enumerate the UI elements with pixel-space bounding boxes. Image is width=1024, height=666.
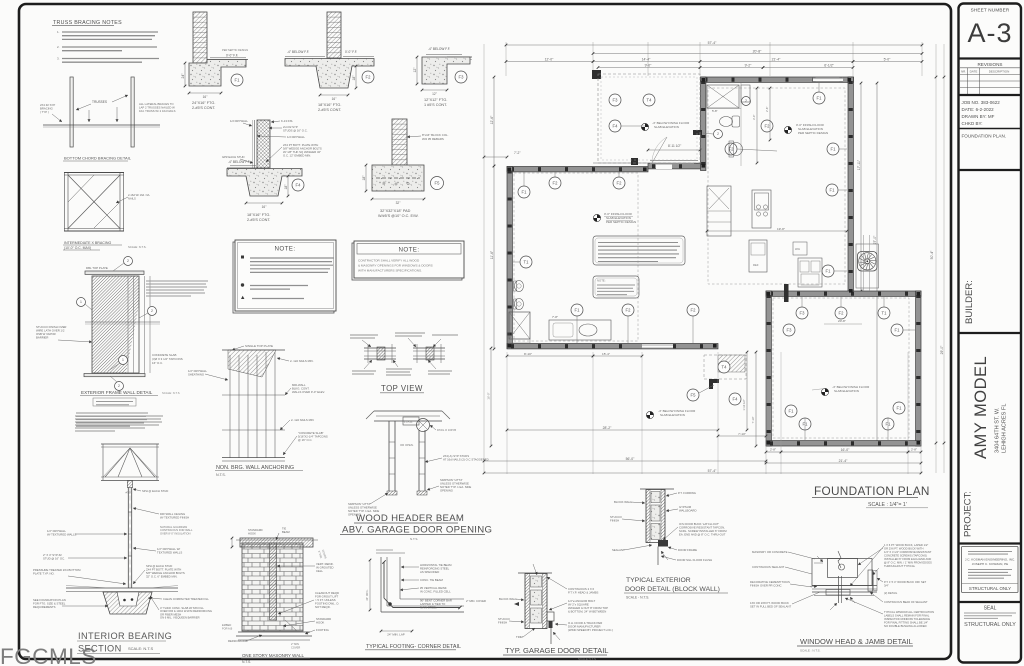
svg-text:20'-8": 20'-8"	[753, 49, 762, 53]
svg-text:SCALE: N.T.S.: SCALE: N.T.S.	[128, 245, 147, 249]
svg-text:1/2 DRYWALL: 1/2 DRYWALL	[287, 135, 305, 139]
svg-text:F1: F1	[522, 190, 528, 195]
svg-text:19'-8": 19'-8"	[777, 227, 785, 231]
svg-text:HOOK: HOOK	[316, 621, 324, 625]
svg-text:5'-8": 5'-8"	[712, 109, 718, 113]
svg-text:DATE: DATE	[970, 70, 978, 74]
svg-text:2" MIN. COVER: 2" MIN. COVER	[466, 599, 486, 603]
svg-text:ON 6 MIL. VISQUEEN BARRIER: ON 6 MIL. VISQUEEN BARRIER	[160, 616, 200, 620]
svg-text:@ 16" O.C.: @ 16" O.C.	[298, 438, 312, 442]
svg-text:FOUNDATION PLAN.: FOUNDATION PLAN.	[962, 134, 1007, 139]
svg-text:F1: F1	[803, 422, 809, 427]
header beam posts	[388, 421, 390, 491]
svg-text:DRAWN BY: MF: DRAWN BY: MF	[962, 114, 995, 119]
svg-text:16": 16"	[203, 95, 208, 99]
svg-text:FINISH: FINISH	[498, 621, 507, 625]
svg-text:20'-8": 20'-8"	[838, 319, 846, 323]
svg-text:TEXTURED WALLS: TEXTURED WALLS	[157, 551, 182, 555]
svg-text:TRIM: TRIM	[516, 635, 524, 639]
svg-text:DTAIL O 16P.05: DTAIL O 16P.05	[437, 428, 457, 432]
svg-text:12'-6": 12'-6"	[490, 115, 494, 124]
svg-text:57'-4": 57'-4"	[708, 469, 717, 473]
svg-text:& MASONRY OPENINGS FOR WINDOWS: & MASONRY OPENINGS FOR WINDOWS & DOORS	[358, 264, 433, 268]
great room walls	[701, 77, 854, 82]
svg-text:32"X32"X18" PAD: 32"X32"X18" PAD	[380, 209, 411, 213]
svg-text:2: 2	[127, 259, 129, 263]
svg-text:2.: 2.	[57, 45, 60, 49]
svg-text:W/ TEXTURED FINISH: W/ TEXTURED FINISH	[160, 516, 189, 520]
kitchen fixtures	[707, 186, 731, 236]
svg-text:NO DOUBLE BUSHING ALLOWED: NO DOUBLE BUSHING ALLOWED	[884, 624, 927, 628]
svg-text:HOOK: HOOK	[248, 531, 256, 535]
footing detail F2	[327, 12, 341, 58]
svg-text:9'-0": 9'-0"	[645, 63, 653, 67]
garage walls	[766, 291, 921, 296]
svg-text:32": 32"	[396, 201, 401, 205]
F5 marker circle	[431, 177, 444, 190]
foundation plan: top dimension rows	[506, 44, 922, 46]
rounded note box in plan 1	[593, 236, 685, 265]
interior bearing section: post	[127, 481, 132, 488]
svg-text:16": 16"	[332, 97, 337, 101]
svg-text:2 2X12: 2 2X12	[404, 420, 413, 424]
svg-text:BARRIER: BARRIER	[36, 336, 48, 340]
svg-text:JOSEPH C. KOSMAN, PE: JOSEPH C. KOSMAN, PE	[972, 562, 1008, 566]
svg-text:7'-2": 7'-2"	[514, 151, 521, 155]
svg-text:16": 16"	[262, 205, 267, 209]
interior wall w/ door gap	[648, 164, 701, 169]
bathtub	[549, 320, 611, 340]
svg-text:FGCMLS: FGCMLS	[0, 644, 97, 666]
svg-text:SHEET NUMBER: SHEET NUMBER	[971, 8, 1010, 13]
svg-text:ONE STORY MASONRY WALL: ONE STORY MASONRY WALL	[242, 653, 304, 658]
svg-text:P.T. FURRING: P.T. FURRING	[678, 491, 696, 495]
marker circles TL room	[518, 186, 530, 198]
svg-text:DESCRIPTION: DESCRIPTION	[989, 70, 1010, 74]
vertical dim left of plan lower	[490, 348, 492, 446]
svg-text:SPH @ EACH STUD: SPH @ EACH STUD	[142, 489, 168, 493]
top view detail	[364, 347, 396, 349]
svg-text:FINISH: FINISH	[610, 519, 619, 523]
svg-text:(10'-0" O.C. MAX): (10'-0" O.C. MAX)	[64, 246, 91, 250]
plumbing fixtures left wall	[515, 281, 524, 292]
svg-text:PLATE T.YP. NO.: PLATE T.YP. NO.	[33, 572, 55, 576]
svg-text:SCALE N.T.S: SCALE N.T.S	[578, 657, 596, 661]
svg-text:CONTINUOUS BEAD OF SEALANT: CONTINUOUS BEAD OF SEALANT	[884, 600, 928, 604]
svg-text:SCALE: N.T.S: SCALE: N.T.S	[128, 646, 153, 651]
svg-text:0'-0" F.F.: 0'-0" F.F.	[345, 50, 357, 54]
svg-text:3/4": 3/4"	[884, 584, 889, 588]
svg-text:W/H: W/H	[795, 247, 800, 251]
svg-text:1/2 DRYWALL: 1/2 DRYWALL	[230, 119, 248, 123]
svg-text:JOB NO. 383-0622: JOB NO. 383-0622	[962, 100, 1001, 105]
svg-text:12'-0": 12'-0"	[545, 57, 554, 61]
svg-text:1: 1	[122, 358, 124, 362]
svg-text:AMY MODEL: AMY MODEL	[972, 356, 990, 459]
svg-text:REINFORCING: REINFORCING	[228, 639, 248, 643]
svg-text:9'-2": 9'-2"	[745, 63, 753, 67]
svg-text:LEHIGH ACRES FL: LEHIGH ACRES FL	[1002, 404, 1008, 453]
svg-text:2'-8": 2'-8"	[770, 448, 776, 452]
wall corner ticks	[702, 78, 706, 82]
svg-text:15'-4": 15'-4"	[602, 352, 610, 356]
note box 1	[233, 242, 334, 313]
footing detail F5	[392, 119, 407, 165]
title block frame	[959, 4, 1022, 663]
bottom chord bracing detail	[70, 77, 73, 147]
svg-text:(2) DETAIL: (2) DETAIL	[884, 591, 898, 595]
svg-text:INTERIOR BEARING: INTERIOR BEARING	[78, 631, 172, 641]
svg-text:SEALANT: SEALANT	[612, 548, 625, 552]
svg-text:CONTRACTOR SHALL VERIFY ALL WO: CONTRACTOR SHALL VERIFY ALL WOOD	[358, 259, 420, 263]
svg-text:P.T. 1"X 4" WOOD BUCK OFF SET: P.T. 1"X 4" WOOD BUCK OFF SET	[884, 580, 927, 584]
A/C unit with fan	[856, 244, 879, 288]
svg-text:27'-0": 27'-0"	[873, 235, 877, 244]
svg-text:SLAB ELEVATION: SLAB ELEVATION	[660, 413, 685, 417]
svg-text:2-#5'S CONT.: 2-#5'S CONT.	[318, 108, 341, 112]
svg-text:F3: F3	[459, 75, 465, 80]
svg-text:K-13 INS.: K-13 INS.	[281, 119, 293, 123]
svg-text:2: 2	[717, 132, 719, 136]
svg-text:WALLBOARD: WALLBOARD	[679, 509, 696, 513]
svg-text:THROUGHOUT TYPICAL: THROUGHOUT TYPICAL	[884, 564, 916, 568]
svg-text:29'-0": 29'-0"	[940, 345, 944, 354]
svg-text:NOTE:: NOTE:	[399, 247, 420, 254]
svg-text:DATE: 6-2-2022: DATE: 6-2-2022	[962, 107, 995, 112]
svg-text:18"X16" FTG.: 18"X16" FTG.	[318, 103, 341, 107]
svg-text:CONC. TIE BEAM: CONC. TIE BEAM	[420, 578, 443, 582]
svg-text:F2: F2	[839, 311, 845, 316]
svg-text:#TSG: #TSG	[126, 491, 133, 495]
svg-text:2: 2	[118, 384, 120, 388]
svg-text:SCALE: N.T.S: SCALE: N.T.S	[162, 391, 180, 395]
svg-text:STRUCTURAL ONLY: STRUCTURAL ONLY	[969, 586, 1011, 591]
window opening in top wall	[813, 78, 843, 82]
svg-text:28'-2": 28'-2"	[603, 426, 612, 430]
footing detail F3	[447, 56, 472, 58]
4-quadrant elevation symbols	[593, 214, 600, 221]
svg-text:16" O.C.: 16" O.C.	[152, 361, 163, 365]
foundation plan: right dimension lines	[935, 44, 937, 473]
exterior frame wall detail	[85, 271, 144, 274]
svg-text:T1: T1	[882, 311, 888, 316]
svg-text:7'-10": 7'-10"	[751, 417, 755, 424]
svg-text:STUD @ 16" OC.: STUD @ 16" OC.	[43, 557, 65, 561]
svg-text:16'-0": 16'-0"	[487, 392, 491, 399]
svg-text:14'-4": 14'-4"	[642, 57, 651, 61]
svg-text:STRUCTURAL ONLY: STRUCTURAL ONLY	[964, 622, 1016, 628]
svg-text:AT 16d NAILS (2) O.C STAGGERED: AT 16d NAILS (2) O.C STAGGERED	[443, 458, 489, 462]
intermediate X bracing detail	[64, 172, 124, 174]
svg-text:56'-0": 56'-0"	[626, 457, 635, 461]
svg-text:DOOR SILL FLOOR FLUSH: DOOR SILL FLOOR FLUSH	[677, 558, 712, 562]
svg-text:F2: F2	[626, 308, 632, 313]
svg-text:FOR A.B: FOR A.B	[222, 626, 233, 630]
svg-text:11'-6": 11'-6"	[490, 250, 494, 259]
svg-text:WALLS OVER 9'-0" ELEV.: WALLS OVER 9'-0" ELEV.	[292, 390, 325, 394]
svg-text:50'-4": 50'-4"	[930, 250, 934, 259]
svg-text:BUILDER:: BUILDER:	[964, 280, 975, 324]
bath fixtures great room	[707, 85, 739, 108]
porch circles	[687, 389, 699, 401]
svg-text:SCALE : 1/4"= 1': SCALE : 1/4"= 1'	[868, 502, 907, 508]
svg-text:7'-8": 7'-8"	[552, 315, 558, 319]
svg-text:N.T.S.: N.T.S.	[242, 660, 251, 664]
typ. garage door detail	[518, 572, 552, 574]
svg-text:TYPICAL WINDOW ALL CERTIFICATI: TYPICAL WINDOW ALL CERTIFICATION	[884, 610, 934, 614]
svg-text:WITH MANUFACTURERS SPECIFICATI: WITH MANUFACTURERS SPECIFICATIONS.	[358, 269, 422, 273]
svg-text:NOTE:: NOTE:	[597, 279, 606, 283]
svg-text:TRUSS BRACING NOTES: TRUSS BRACING NOTES	[53, 20, 122, 26]
svg-text:T1: T1	[524, 260, 530, 265]
svg-text:3404 64TH ST. W.: 3404 64TH ST. W.	[995, 407, 1001, 453]
dashed slab inset great room	[708, 88, 845, 284]
svg-text:PER SEPTIC DESIGN: PER SEPTIC DESIGN	[798, 131, 828, 135]
patio circles	[609, 94, 621, 106]
svg-text:P.T.Y.P. HEAD & JAMBS: P.T.Y.P. HEAD & JAMBS	[568, 591, 598, 595]
great room circles	[813, 92, 825, 104]
svg-text:NOTE:: NOTE:	[275, 246, 296, 253]
typical exterior door detail (block wall)	[640, 488, 674, 490]
svg-text:-4" BELOW F.F.: -4" BELOW F.F.	[228, 160, 250, 164]
dims between house and garage	[746, 352, 748, 430]
dashed slab inset TL room	[514, 173, 638, 341]
svg-text:FOOTING: FOOTING	[316, 628, 329, 632]
svg-text:18"X16" FTG.: 18"X16" FTG.	[247, 213, 270, 217]
entry door swing	[652, 137, 667, 163]
svg-text:F1: F1	[235, 78, 241, 83]
svg-text:REF: REF	[753, 263, 759, 267]
svg-text:21'-4": 21'-4"	[839, 459, 848, 463]
svg-text:& BOTTOM, 24" W BETWEEN: & BOTTOM, 24" W BETWEEN	[568, 610, 606, 614]
svg-text:1: 1	[80, 300, 82, 304]
svg-text:FINISH OVER PR CONC: FINISH OVER PR CONC	[750, 584, 782, 588]
svg-text:MAIN STEEL: MAIN STEEL	[420, 606, 437, 610]
svg-text:8'-11 1/2": 8'-11 1/2"	[668, 144, 681, 148]
F2 marker circle	[362, 71, 374, 83]
svg-text:2'-8": 2'-8"	[765, 107, 769, 112]
svg-text:CHKD BY:: CHKD BY:	[962, 121, 983, 126]
svg-text:WOOD HEADER BEAM: WOOD HEADER BEAM	[356, 513, 464, 524]
svg-text:( TYP ): ( TYP )	[40, 110, 49, 114]
footing detail F4	[257, 120, 270, 168]
svg-text:LABELS SHALL REMAIN FOR FINAL: LABELS SHALL REMAIN FOR FINAL	[884, 614, 930, 618]
svg-text:SINGLE TOP PLATE: SINGLE TOP PLATE	[245, 344, 273, 348]
foundation plan: extension lines top	[505, 42, 507, 76]
dashed patio outline top-left	[598, 74, 700, 163]
svg-text:2-16d W/ 16d. NA.: 2-16d W/ 16d. NA.	[128, 193, 150, 197]
svg-text:21'-4": 21'-4"	[772, 57, 781, 61]
svg-text:3'-0": 3'-0"	[752, 115, 756, 120]
svg-text:EA. END AND @ 8" O.C. THRU-OUT: EA. END AND @ 8" O.C. THRU-OUT	[679, 533, 726, 537]
svg-text:BLOCK WALL: BLOCK WALL	[614, 500, 632, 504]
F4 marker circle	[292, 179, 304, 191]
svg-text:F1: F1	[897, 406, 903, 411]
svg-text:INSPECTION WINDOW TOLERANCE: INSPECTION WINDOW TOLERANCE	[884, 617, 930, 621]
svg-text:SLAB ELEVATION: SLAB ELEVATION	[834, 389, 859, 393]
svg-text:F4: F4	[613, 124, 619, 129]
svg-text:NR.: NR.	[961, 70, 966, 74]
shower x-box	[509, 312, 530, 339]
svg-text:-4" BELOW F.F.: -4" BELOW F.F.	[287, 50, 309, 54]
svg-text:BEAM: BEAM	[282, 530, 290, 534]
svg-text:1 X 6 PT. WOOD BUCK, LAPED 1/2: 1 X 6 PT. WOOD BUCK, LAPED 1/2"	[884, 543, 928, 547]
svg-text:STUDS @ 16" O.C.: STUDS @ 16" O.C.	[283, 129, 308, 133]
svg-text:F2: F2	[553, 181, 559, 186]
svg-text:TYPICAL FOOTING- CORNER DETAIL: TYPICAL FOOTING- CORNER DETAIL	[366, 644, 461, 650]
svg-text:DOOR DETAIL (BLOCK WALL): DOOR DETAIL (BLOCK WALL)	[625, 586, 720, 593]
svg-text:IN CONC. FILLED CELL: IN CONC. FILLED CELL	[420, 590, 451, 594]
svg-text:FOR FINAL FITTING SHALL BE 1/: FOR FINAL FITTING SHALL BE 1/4"	[884, 621, 928, 625]
svg-text:GP# EACH STUD: GP# EACH STUD	[222, 155, 245, 159]
svg-text:DOOR FRAME: DOOR FRAME	[678, 548, 697, 552]
exterior frame wall labels	[146, 280, 208, 282]
svg-text:OR 2X6 PT. WOOD BUCK WITH: OR 2X6 PT. WOOD BUCK WITH	[884, 547, 923, 551]
interior vertical dim strings	[756, 88, 758, 163]
svg-text:F3: F3	[613, 98, 619, 103]
svg-text:BLOCK WALL: BLOCK WALL	[499, 597, 517, 601]
svg-text:FOUNDATION PLAN: FOUNDATION PLAN	[814, 484, 930, 498]
svg-text:T4: T4	[647, 98, 653, 103]
svg-text:TRUSSES: TRUSSES	[92, 100, 107, 104]
svg-text:N.T.S.: N.T.S.	[410, 537, 418, 541]
svg-text:F1: F1	[830, 188, 836, 193]
svg-text:18": 18"	[284, 184, 288, 190]
svg-text:3.: 3.	[57, 57, 60, 61]
svg-text:W/ TEXTURED WALLS: W/ TEXTURED WALLS	[47, 533, 77, 537]
svg-text:REQUIREMENTS: REQUIREMENTS	[33, 605, 56, 609]
svg-text:SCALE - N.T.S.: SCALE - N.T.S.	[626, 596, 649, 600]
svg-text:N.T.S.: N.T.S.	[216, 473, 226, 477]
svg-text:PROJECT:: PROJECT:	[963, 491, 974, 537]
svg-text:F2: F2	[765, 124, 771, 129]
svg-text:OR OPEN.: OR OPEN.	[400, 443, 414, 447]
typical footing corner detail	[380, 557, 382, 612]
svg-text:12": 12"	[432, 92, 437, 96]
svg-text:32" O.C. 6" EMBED MIN.: 32" O.C. 6" EMBED MIN.	[146, 575, 178, 579]
svg-text:CLEAN COMPACTED TREATED FILL: CLEAN COMPACTED TREATED FILL	[163, 597, 209, 601]
svg-text:F2: F2	[617, 181, 623, 186]
svg-text:1 #5'S CONT.: 1 #5'S CONT.	[424, 103, 447, 107]
svg-text:CELL: CELL	[316, 569, 323, 573]
svg-text:12"X12" FTG.: 12"X12" FTG.	[424, 98, 447, 102]
svg-text:MASONRY OR CONCRETE: MASONRY OR CONCRETE	[752, 550, 788, 554]
svg-text:57'-4": 57'-4"	[708, 41, 717, 45]
svg-text:F4: F4	[296, 183, 302, 188]
svg-text:INSTALLED 6" FROM EACH END AND: INSTALLED 6" FROM EACH END AND	[884, 557, 931, 561]
svg-text:F1: F1	[817, 96, 823, 101]
step band / stoop at left room top right	[593, 162, 701, 164]
svg-text:24" MIN. LAP: 24" MIN. LAP	[387, 633, 404, 637]
wood header beam detail	[374, 410, 442, 412]
svg-text:F4: F4	[733, 397, 739, 402]
svg-text:5'-0": 5'-0"	[884, 57, 892, 61]
svg-text:2'-8": 2'-8"	[911, 448, 917, 452]
svg-text:WINDOW HEAD & JAMB DETAIL: WINDOW HEAD & JAMB DETAIL	[800, 637, 913, 646]
svg-text:F1: F1	[886, 422, 892, 427]
svg-text:TOP VIEW: TOP VIEW	[381, 384, 423, 393]
svg-text:O.C. 12" EMBED MIN.: O.C. 12" EMBED MIN.	[283, 154, 311, 158]
svg-text:F1: F1	[831, 147, 837, 152]
svg-text:F1: F1	[789, 409, 795, 414]
svg-text:16'-0": 16'-0"	[841, 448, 850, 452]
laundry near garage	[798, 258, 822, 287]
svg-text:SLAB ELEVATION: SLAB ELEVATION	[654, 125, 679, 129]
masonry wall footing	[238, 631, 310, 633]
foundation plan: walls TL room	[507, 167, 648, 172]
svg-text:OVER 8'-0" INSULATION: OVER 8'-0" INSULATION	[160, 531, 190, 535]
one story masonry wall detail	[242, 543, 303, 631]
svg-text:1/4" X 3 1/4" CORROSIVE RESIST: 1/4" X 3 1/4" CORROSIVE RESISTANT	[884, 550, 932, 554]
svg-text:SHEATHING: SHEATHING	[188, 373, 204, 377]
svg-text:12": 12"	[413, 67, 417, 73]
svg-text:NAILS: NAILS	[128, 197, 136, 201]
svg-text:(WIND SPEED BY PROJECT LOC.): (WIND SPEED BY PROJECT LOC.)	[568, 628, 613, 632]
svg-text:SET IN FULL BED OF SEALANT: SET IN FULL BED OF SEALANT	[750, 605, 791, 609]
svg-text:TYP. GARAGE DOOR DETAIL: TYP. GARAGE DOOR DETAIL	[505, 646, 609, 655]
svg-text:T4: T4	[722, 365, 728, 370]
svg-text:A-3: A-3	[967, 18, 1012, 48]
window head & jamb detail	[812, 559, 872, 586]
svg-text:2-#5'S CONT.: 2-#5'S CONT.	[192, 106, 215, 110]
svg-text:INTERMEDIATE X BRACING: INTERMEDIATE X BRACING	[64, 241, 111, 245]
svg-text:2- 12d NAILS MIN: 2- 12d NAILS MIN	[291, 418, 314, 422]
svg-text:6'-1/2": 6'-1/2"	[824, 63, 834, 67]
svg-text:W/#5'S @10" O.C. E/W.: W/#5'S @10" O.C. E/W.	[378, 214, 419, 218]
svg-text:NOT REQD.: NOT REQD.	[315, 605, 331, 609]
svg-text:PER SEPTIC DESIGN: PER SEPTIC DESIGN	[222, 48, 248, 52]
svg-text:NON. BRG. WALL ANCHORING: NON. BRG. WALL ANCHORING	[216, 465, 294, 471]
dashed slab inset garage	[773, 298, 909, 438]
svg-text:17'-11": 17'-11"	[857, 159, 861, 170]
svg-text:24"X16" FTG.: 24"X16" FTG.	[192, 101, 215, 105]
garage interior circles	[796, 307, 808, 319]
svg-text:AS SPECIFIED: AS SPECIFIED	[420, 570, 439, 574]
svg-text:1.: 1.	[57, 30, 60, 34]
svg-text:F1: F1	[575, 308, 581, 313]
svg-text:16d. TRUSS W/ 2 16d NAILS: 16d. TRUSS W/ 2 16d NAILS	[139, 109, 176, 113]
svg-text:8'-10": 8'-10"	[524, 352, 532, 356]
F1 marker circle	[231, 74, 243, 86]
svg-text:18": 18"	[352, 75, 356, 81]
bottom dims	[506, 352, 508, 474]
title block: engineer box	[962, 547, 1019, 593]
svg-text:7'-10": 7'-10"	[738, 432, 746, 436]
svg-text:2-#5'S CONT.: 2-#5'S CONT.	[247, 218, 270, 222]
svg-text:24": 24"	[181, 73, 185, 79]
svg-text:F3: F3	[800, 311, 806, 316]
svg-text:F1: F1	[895, 328, 901, 333]
svg-text:BOTTOM CHORD BRACING DETAIL: BOTTOM CHORD BRACING DETAIL	[64, 156, 132, 161]
svg-text:SEAL: SEAL	[984, 606, 997, 612]
svg-text:EXTERIOR FRAME WALL DETAIL: EXTERIOR FRAME WALL DETAIL	[81, 390, 153, 395]
F3 marker circle	[455, 71, 467, 83]
svg-text:TYPICAL EXTERIOR: TYPICAL EXTERIOR	[626, 577, 691, 584]
svg-text:COVER: COVER	[291, 645, 300, 649]
svg-text:24" MIN L: 24" MIN L	[366, 589, 369, 601]
svg-text:0'-0" F.F.: 0'-0" F.F.	[226, 54, 238, 58]
svg-text:-4" BELOW F.F.: -4" BELOW F.F.	[428, 47, 450, 51]
svg-text:CONCRETE SCREWS (TAPCONS): CONCRETE SCREWS (TAPCONS)	[884, 554, 927, 558]
svg-text:2- 12d NAILS MIN.: 2- 12d NAILS MIN.	[290, 359, 314, 363]
svg-text:2: 2	[745, 99, 747, 103]
svg-text:F2: F2	[366, 75, 372, 80]
footing detail F1	[193, 12, 207, 63]
svg-text:CONTINUOUS SEALANT: CONTINUOUS SEALANT	[752, 565, 785, 569]
interior bearing section: truss	[101, 443, 159, 445]
svg-text:F3: F3	[787, 328, 793, 333]
svg-text:18": 18"	[362, 175, 366, 181]
